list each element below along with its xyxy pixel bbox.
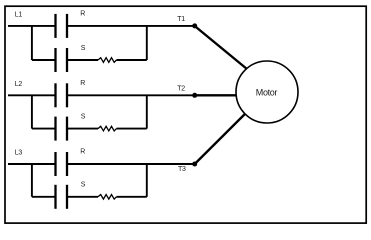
svg-text:R: R xyxy=(80,11,85,18)
svg-text:Motor: Motor xyxy=(256,88,278,98)
svg-text:T2: T2 xyxy=(177,85,185,92)
svg-text:L3: L3 xyxy=(15,150,23,157)
svg-text:S: S xyxy=(81,182,86,189)
svg-text:R: R xyxy=(80,149,85,156)
svg-text:L1: L1 xyxy=(15,12,23,19)
svg-text:T1: T1 xyxy=(177,16,185,23)
svg-text:R: R xyxy=(80,80,85,87)
svg-text:S: S xyxy=(81,45,86,52)
svg-text:L2: L2 xyxy=(15,81,23,88)
svg-text:T3: T3 xyxy=(178,166,186,173)
svg-text:S: S xyxy=(81,113,86,120)
